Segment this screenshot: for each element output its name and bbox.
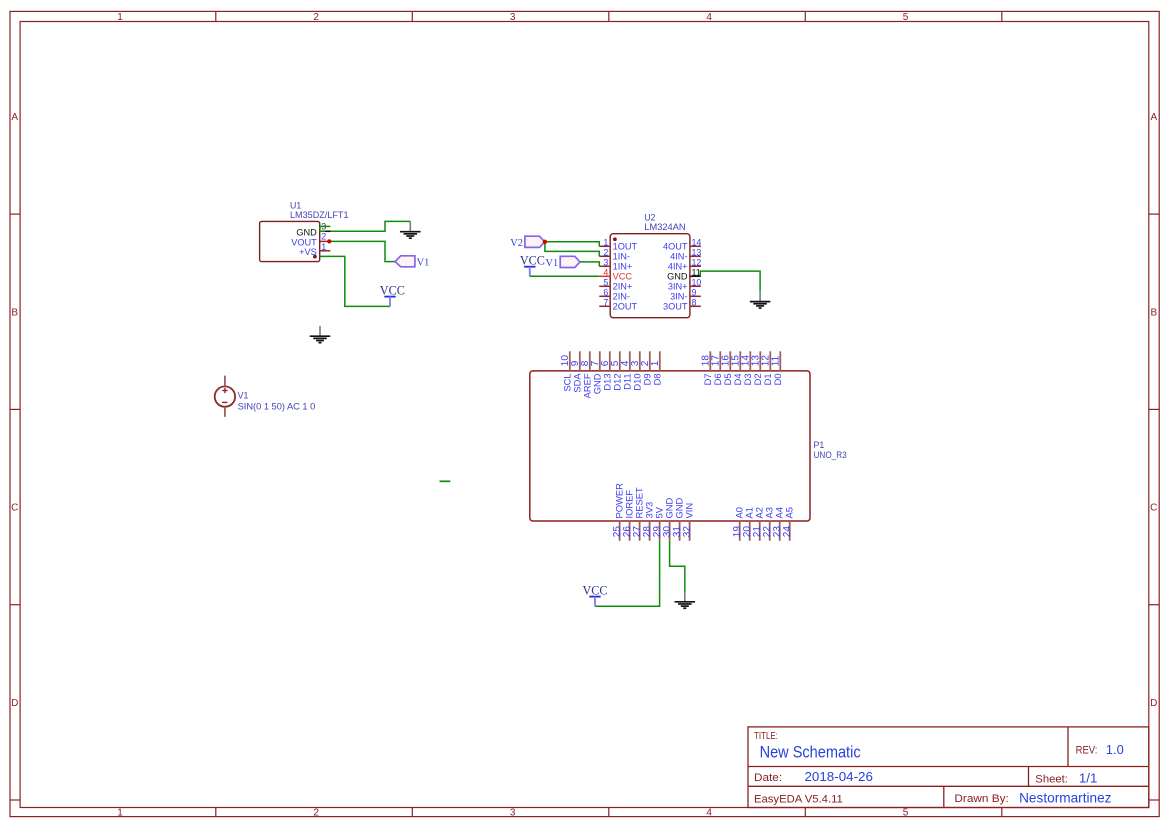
svg-text:V1: V1 — [417, 257, 430, 268]
svg-text:13: 13 — [692, 247, 702, 257]
svg-text:VOUT: VOUT — [291, 238, 317, 248]
svg-text:A5: A5 — [783, 507, 794, 518]
svg-text:11: 11 — [692, 267, 701, 277]
svg-text:D8: D8 — [652, 373, 663, 385]
svg-text:6: 6 — [603, 287, 608, 297]
svg-text:3: 3 — [321, 222, 326, 232]
svg-text:V2: V2 — [510, 238, 523, 249]
svg-text:U2: U2 — [644, 213, 655, 223]
svg-text:GND: GND — [296, 228, 317, 238]
svg-text:New Schematic: New Schematic — [760, 744, 861, 762]
svg-text:P1: P1 — [814, 440, 825, 450]
svg-text:10: 10 — [692, 277, 702, 287]
svg-text:3: 3 — [510, 12, 516, 23]
svg-text:4IN-: 4IN- — [670, 252, 687, 262]
svg-text:12: 12 — [692, 257, 702, 267]
svg-text:3IN+: 3IN+ — [668, 282, 688, 292]
svg-text:C: C — [11, 503, 18, 514]
svg-text:2: 2 — [603, 247, 608, 257]
svg-text:3IN-: 3IN- — [670, 292, 687, 302]
svg-text:2: 2 — [313, 808, 319, 819]
svg-text:1IN+: 1IN+ — [613, 262, 633, 272]
svg-text:32: 32 — [682, 526, 693, 538]
svg-text:5: 5 — [603, 277, 608, 287]
svg-text:1: 1 — [650, 360, 661, 366]
svg-text:1.0: 1.0 — [1106, 742, 1124, 757]
svg-text:2: 2 — [313, 12, 319, 23]
svg-text:UNO_R3: UNO_R3 — [814, 450, 847, 460]
svg-text:7: 7 — [603, 297, 608, 307]
svg-text:REV:: REV: — [1076, 745, 1098, 757]
svg-text:3OUT: 3OUT — [663, 302, 688, 312]
svg-text:2IN-: 2IN- — [613, 292, 630, 302]
svg-text:LM324AN: LM324AN — [644, 222, 685, 232]
svg-text:1IN-: 1IN- — [613, 252, 630, 262]
svg-text:1OUT: 1OUT — [613, 242, 638, 252]
svg-text:4: 4 — [706, 12, 712, 23]
svg-text:1: 1 — [117, 808, 123, 819]
svg-text:14: 14 — [692, 237, 702, 247]
svg-text:TITLE:: TITLE: — [754, 731, 778, 742]
svg-text:Sheet:: Sheet: — [1035, 773, 1068, 785]
svg-text:C: C — [1150, 503, 1157, 514]
svg-text:Date:: Date: — [754, 772, 782, 784]
svg-text:A: A — [11, 112, 18, 123]
svg-text:B: B — [11, 307, 18, 318]
svg-text:1: 1 — [321, 242, 326, 252]
svg-text:Nestormartinez: Nestormartinez — [1019, 791, 1112, 806]
svg-text:SIN(0 1 50) AC 1 0: SIN(0 1 50) AC 1 0 — [238, 402, 316, 412]
svg-text:5: 5 — [903, 808, 909, 819]
svg-text:2IN+: 2IN+ — [613, 282, 633, 292]
svg-text:GND: GND — [667, 272, 688, 282]
svg-text:VCC: VCC — [613, 272, 633, 282]
svg-text:Drawn By:: Drawn By: — [954, 793, 1008, 805]
svg-text:VIN: VIN — [683, 503, 694, 519]
svg-text:3: 3 — [510, 808, 516, 819]
svg-text:9: 9 — [692, 287, 697, 297]
svg-text:11: 11 — [771, 355, 782, 366]
svg-text:1/1: 1/1 — [1079, 770, 1098, 785]
svg-text:2OUT: 2OUT — [613, 302, 638, 312]
svg-text:2018-04-26: 2018-04-26 — [805, 769, 873, 784]
svg-text:V1: V1 — [545, 258, 558, 269]
svg-text:V1: V1 — [238, 391, 249, 401]
svg-text:EasyEDA V5.4.11: EasyEDA V5.4.11 — [754, 793, 843, 805]
svg-text:4OUT: 4OUT — [663, 242, 688, 252]
svg-text:4: 4 — [706, 808, 712, 819]
svg-text:4: 4 — [603, 267, 608, 277]
svg-text:B: B — [1150, 307, 1157, 318]
svg-text:VCC: VCC — [380, 284, 405, 298]
svg-text:3: 3 — [603, 257, 608, 267]
svg-text:5: 5 — [903, 12, 909, 23]
svg-text:1: 1 — [117, 12, 123, 23]
svg-text:4IN+: 4IN+ — [668, 262, 688, 272]
svg-text:D: D — [1150, 698, 1157, 709]
svg-text:VCC: VCC — [520, 254, 545, 268]
svg-text:D: D — [11, 698, 18, 709]
svg-text:1: 1 — [603, 237, 608, 247]
svg-text:A: A — [1150, 112, 1157, 123]
svg-text:VCC: VCC — [582, 584, 607, 598]
svg-text:LM35DZ/LFT1: LM35DZ/LFT1 — [290, 210, 349, 220]
svg-text:8: 8 — [692, 297, 697, 307]
svg-text:D0: D0 — [772, 373, 783, 385]
svg-text:2: 2 — [321, 232, 326, 242]
svg-text:24: 24 — [782, 526, 793, 538]
